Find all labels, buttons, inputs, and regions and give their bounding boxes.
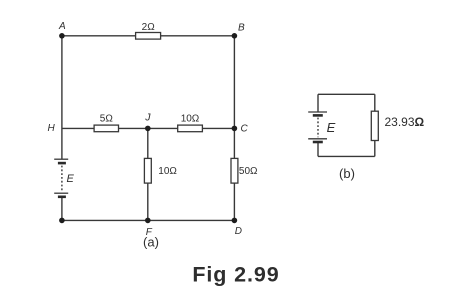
wire middle vertical J-F [147,128,149,220]
battery E circuit b [308,112,335,142]
svg-text:A: A [58,21,66,32]
battery E circuit a [54,159,74,197]
svg-text:50Ω: 50Ω [239,166,258,177]
resistor R 10ohm horizontal [178,114,203,132]
svg-text:23.93Ω: 23.93Ω [385,115,425,129]
node C [232,126,238,132]
node bottom-left junction [59,218,65,224]
svg-text:E: E [327,120,336,135]
svg-text:(a): (a) [143,235,159,250]
resistor R 10ohm vertical [144,158,177,183]
svg-text:B: B [238,23,245,34]
wire b top [318,93,375,95]
resistor R 50ohm vertical [231,158,258,183]
svg-text:E: E [67,173,75,185]
wire right vertical B-C-D [233,36,235,221]
svg-text:J: J [144,111,151,123]
svg-text:10Ω: 10Ω [181,114,200,125]
svg-text:5Ω: 5Ω [100,114,114,125]
svg-text:C: C [241,124,249,135]
resistor R 23.93ohm [371,111,424,140]
resistor R 5ohm [94,114,118,132]
wire left vertical A-H-battery [61,36,63,159]
svg-text:Fig 2.99: Fig 2.99 [192,263,279,287]
node F [145,218,151,224]
node B [232,33,238,39]
circuit b loop wires [318,94,375,156]
wire top A-B [62,35,235,37]
wire b right [374,94,376,156]
svg-text:H: H [48,123,56,134]
node J [145,126,151,132]
wire bottom [62,219,235,221]
resistor R 2ohm [136,22,161,39]
svg-text:D: D [235,226,242,237]
node A [59,33,65,39]
svg-text:(b): (b) [339,166,355,181]
wire b left lower [317,143,319,157]
wire b bottom [318,155,375,157]
svg-text:2Ω: 2Ω [142,22,156,33]
svg-text:10Ω: 10Ω [158,166,177,177]
wire middle H-J-C [62,127,235,129]
wire b left upper [317,94,319,112]
wire left vertical battery-bottom [61,197,63,220]
node D [232,218,238,224]
